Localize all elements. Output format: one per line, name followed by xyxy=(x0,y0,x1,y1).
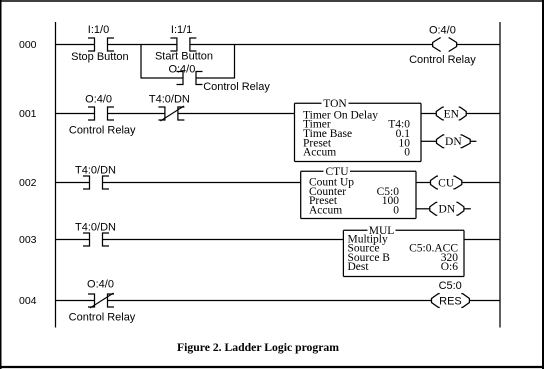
multiply box MUL xyxy=(343,225,464,277)
svg-text:RES: RES xyxy=(439,295,462,307)
label I:1/1 xyxy=(171,24,192,36)
wire contact T4:0/DN to TON box xyxy=(178,113,295,115)
stub wire after DN coil rung2 xyxy=(464,208,471,210)
svg-text:DN: DN xyxy=(439,204,456,216)
wire rail to contact I:1/0 xyxy=(56,44,95,46)
svg-text:I:1/1: I:1/1 xyxy=(171,24,192,36)
label Control Relay rung1 xyxy=(69,125,136,137)
wire contact I:1/0 to contact I:1/1 xyxy=(108,44,177,46)
wire MUL box to rail xyxy=(464,239,500,241)
rung number 001 xyxy=(19,108,37,120)
coil CU count up xyxy=(431,176,462,189)
coil DN counter done xyxy=(430,202,464,215)
label O:4/0 branch xyxy=(168,64,195,76)
label O:4/0 rung4 xyxy=(87,278,114,290)
wire TON to DN coil xyxy=(421,140,437,142)
branch wire to contact O:4/0 xyxy=(141,77,183,79)
svg-text:O:4/0: O:4/0 xyxy=(429,25,456,37)
caption Figure 2. Ladder Logic program xyxy=(177,341,339,354)
wire coil O:4/0 to rail xyxy=(457,44,500,46)
label Control Relay coil xyxy=(409,54,476,66)
label O:4/0 coil xyxy=(429,25,456,37)
XIC contact O:4/0 Control Relay xyxy=(88,107,114,121)
wire TON to EN coil xyxy=(421,113,436,115)
svg-text:O:6: O:6 xyxy=(441,261,459,273)
wire CU coil to rail xyxy=(462,182,500,184)
svg-text:002: 002 xyxy=(19,177,37,189)
svg-text:003: 003 xyxy=(19,234,37,246)
label Start Button xyxy=(155,50,213,62)
XIC contact I:1/0 Stop Button xyxy=(88,38,114,52)
label T4:0/DN rung3 xyxy=(75,221,116,233)
wire contact to MUL box xyxy=(103,239,344,241)
wire CTU to DN coil rung2 xyxy=(416,208,430,210)
svg-text:EN: EN xyxy=(444,108,460,120)
svg-text:Figure 2. Ladder Logic program: Figure 2. Ladder Logic program xyxy=(177,341,339,354)
label Control Relay branch xyxy=(203,81,270,93)
svg-text:004: 004 xyxy=(19,295,37,307)
wire rail to contact T4:0/DN rung2 xyxy=(56,182,90,184)
svg-text:Control Relay: Control Relay xyxy=(203,81,270,93)
wire RES coil to rail xyxy=(469,300,500,302)
XIC contact I:1/1 Start Button xyxy=(170,38,196,52)
coil RES counter reset xyxy=(432,294,470,308)
XIC contact O:4/0 Control Relay branch xyxy=(177,71,203,85)
svg-text:T4:0/DN: T4:0/DN xyxy=(75,165,116,177)
wire rail to contact O:4/0 rung4 xyxy=(56,300,95,302)
counter box CTU C5:0 xyxy=(301,166,416,219)
svg-text:T4:0/DN: T4:0/DN xyxy=(149,93,190,105)
timer box TON T4:0 xyxy=(295,98,422,162)
label I:1/0 xyxy=(88,24,109,36)
svg-text:O:4/0: O:4/0 xyxy=(168,64,195,76)
svg-text:O:4/0: O:4/0 xyxy=(87,278,114,290)
branch wire contact O:4/0 to right vertical xyxy=(196,77,235,79)
XIC contact T4:0/DN rung2 xyxy=(83,176,109,190)
wire rail to contact O:4/0 xyxy=(56,113,95,115)
XIO contact T4:0/DN normally closed xyxy=(158,106,184,121)
svg-text:TON: TON xyxy=(323,98,347,110)
label Control Relay rung4 xyxy=(69,311,136,323)
coil DN timer done xyxy=(437,135,471,148)
svg-text:Dest: Dest xyxy=(348,261,370,273)
svg-text:O:4/0: O:4/0 xyxy=(85,93,112,105)
rung number 000 xyxy=(19,39,37,51)
svg-text:000: 000 xyxy=(19,39,37,51)
label T4:0/DN rung2 xyxy=(75,165,116,177)
label C5:0 above RES xyxy=(439,280,462,292)
svg-text:Accum: Accum xyxy=(303,147,336,159)
right power rail xyxy=(499,22,501,328)
svg-text:Control Relay: Control Relay xyxy=(69,125,136,137)
wire contact to CTU box xyxy=(103,182,301,184)
coil EN xyxy=(436,107,466,120)
svg-text:001: 001 xyxy=(19,108,37,120)
svg-text:T4:0/DN: T4:0/DN xyxy=(75,221,116,233)
svg-text:Start Button: Start Button xyxy=(155,50,213,62)
branch right vertical wire xyxy=(234,45,236,79)
svg-text:CU: CU xyxy=(438,177,455,189)
rung number 004 xyxy=(19,295,37,307)
svg-text:0: 0 xyxy=(404,147,410,159)
wire contact O:4/0 to contact T4:0/DN xyxy=(108,113,165,115)
svg-text:Accum: Accum xyxy=(309,205,342,217)
svg-text:C5:0: C5:0 xyxy=(439,280,462,292)
label O:4/0 rung1 xyxy=(85,93,112,105)
label Stop Button xyxy=(71,51,129,63)
XIC contact T4:0/DN rung3 xyxy=(83,233,109,247)
left power rail xyxy=(55,22,57,328)
wire rail to contact T4:0/DN rung3 xyxy=(56,239,90,241)
svg-text:0: 0 xyxy=(393,205,399,217)
wire contact to RES coil xyxy=(108,300,432,302)
wire contact I:1/1 to coil O:4/0 xyxy=(190,44,433,46)
rung number 003 xyxy=(19,234,37,246)
svg-text:I:1/0: I:1/0 xyxy=(88,24,109,36)
wire EN coil to rail xyxy=(466,113,500,115)
svg-text:Control Relay: Control Relay xyxy=(69,311,136,323)
svg-text:Stop Button: Stop Button xyxy=(71,51,129,63)
stub wire after DN coil xyxy=(470,140,476,142)
branch left vertical wire xyxy=(140,45,142,79)
svg-text:Control Relay: Control Relay xyxy=(409,54,476,66)
wire CTU to CU coil xyxy=(416,182,431,184)
coil O:4/0 Control Relay xyxy=(433,38,457,52)
rung number 002 xyxy=(19,177,37,189)
XIO contact O:4/0 normally closed rung4 xyxy=(88,293,114,308)
svg-text:DN: DN xyxy=(445,136,462,148)
label T4:0/DN rung1 xyxy=(149,93,190,105)
